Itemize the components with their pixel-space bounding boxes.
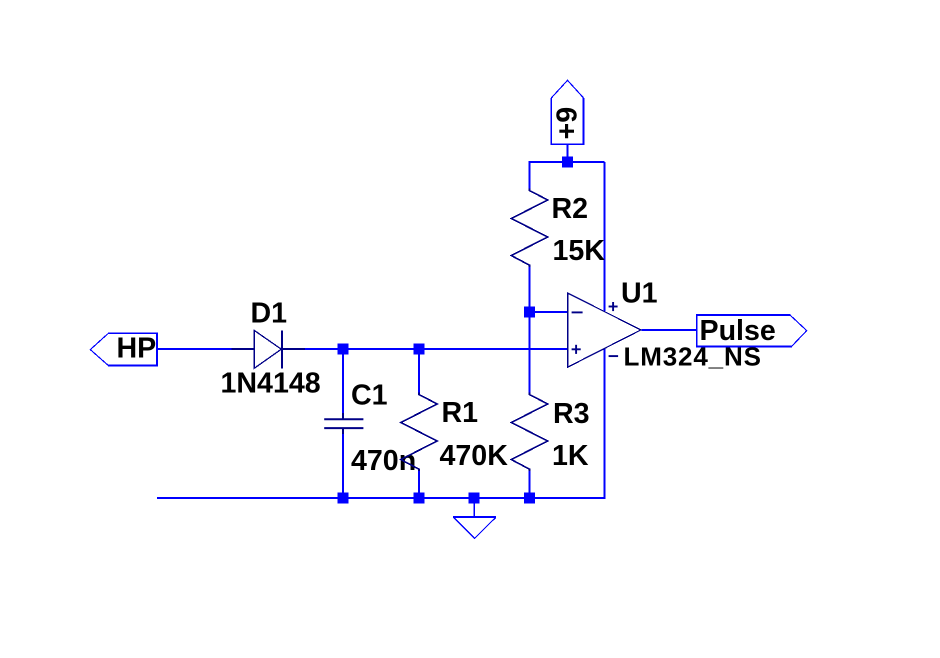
ground symbol <box>453 503 496 538</box>
junction node at +9 rail <box>562 157 573 168</box>
wire +9 rail horizontal <box>530 161 605 163</box>
wire R1 top lead <box>418 349 420 395</box>
resistor R2 <box>511 189 548 268</box>
op-amp U1 <box>568 293 641 367</box>
wire R3 top lead <box>529 312 531 395</box>
junction node IN at D1 cathode <box>338 344 349 355</box>
wire opamp V- to ground rail <box>604 349 606 500</box>
svg-text:1K: 1K <box>552 440 589 472</box>
svg-text:470n: 470n <box>351 445 416 477</box>
svg-text:1N4148: 1N4148 <box>221 368 321 400</box>
resistor R1 <box>401 393 438 472</box>
wire minus input from divider node <box>530 311 569 313</box>
svg-text:HP: HP <box>117 333 157 365</box>
junction node R1 top <box>414 344 425 355</box>
junction R3 ground <box>524 493 535 504</box>
svg-text:R2: R2 <box>552 193 589 225</box>
wire R2 bottom to divider node <box>529 265 531 313</box>
wire D1 cathode to node IN <box>304 348 344 350</box>
flag HP input port <box>90 333 157 365</box>
flag +9 supply <box>551 80 583 144</box>
flag Pulse output port <box>697 315 807 346</box>
wire R2 top lead <box>529 161 531 191</box>
junction C1 ground <box>338 493 349 504</box>
diode D1 <box>232 330 306 368</box>
svg-text:LM324_NS: LM324_NS <box>624 342 762 372</box>
wire ground rail <box>157 497 605 499</box>
wire R1 bottom lead <box>418 470 420 498</box>
svg-text:D1: D1 <box>251 298 288 330</box>
svg-text:C1: C1 <box>351 380 388 412</box>
junction divider node at minus input <box>524 307 535 318</box>
wire C1 top lead <box>342 349 344 419</box>
wire opamp V+ supply <box>604 162 606 311</box>
svg-text:U1: U1 <box>621 277 658 309</box>
svg-text:R1: R1 <box>442 397 479 429</box>
svg-text:+9: +9 <box>552 107 584 140</box>
capacitor C1 <box>324 413 363 434</box>
wire opamp output to Pulse flag <box>642 329 698 331</box>
wire node IN to opamp plus input <box>344 348 568 350</box>
wire R3 bottom lead <box>529 470 531 498</box>
junction ground symbol tap <box>469 493 480 504</box>
svg-text:15K: 15K <box>553 235 606 267</box>
svg-text:R3: R3 <box>553 398 590 430</box>
resistor R3 <box>511 393 548 472</box>
wire +9 flag stem <box>567 144 569 162</box>
wire C1 bottom lead <box>342 428 344 498</box>
junction R1 ground <box>414 493 425 504</box>
svg-text:470K: 470K <box>440 440 509 472</box>
wire HP to D1 anode <box>157 348 232 350</box>
